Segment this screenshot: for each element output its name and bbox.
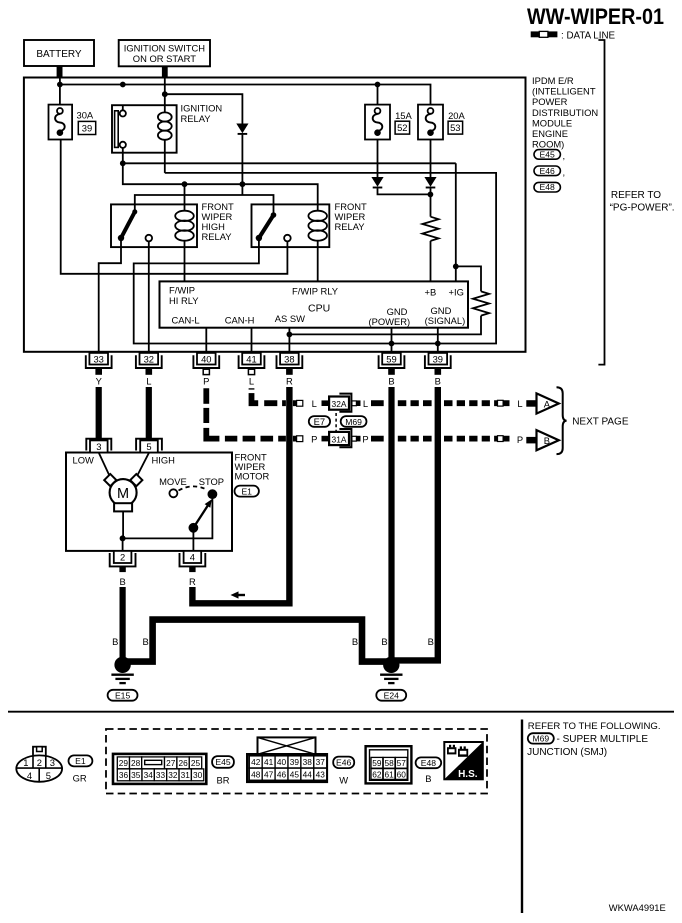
pin 38 IPDM — [277, 353, 303, 375]
svg-text:30: 30 — [193, 770, 203, 780]
svg-text:HIGH: HIGH — [152, 454, 175, 465]
connector E45 oval — [534, 149, 565, 161]
front wiper high relay box — [111, 204, 197, 247]
wire data line L pin 41 — [248, 388, 303, 407]
wire diode branch — [165, 94, 243, 123]
svg-text:STOP: STOP — [199, 476, 224, 487]
node ignition relay output — [120, 160, 126, 166]
wire ignition switch feed — [164, 78, 166, 113]
svg-text:H.S.: H.S. — [458, 769, 478, 780]
svg-text:E45: E45 — [215, 757, 231, 767]
connector E7 oval — [309, 416, 330, 427]
svg-text:52: 52 — [397, 122, 407, 133]
label FRONT WIPER MOTOR — [235, 452, 270, 482]
svg-text:M69: M69 — [532, 734, 549, 744]
svg-text:32A: 32A — [332, 399, 347, 409]
H.S. logo box — [444, 742, 483, 780]
svg-text:31A: 31A — [332, 434, 347, 444]
svg-text:5: 5 — [146, 441, 151, 452]
diode D2 ignition — [236, 124, 248, 134]
fuse number 39 — [78, 121, 95, 134]
ignition relay label — [181, 103, 223, 125]
svg-text:MODULE: MODULE — [532, 117, 572, 128]
relay1 coil — [175, 184, 194, 241]
svg-text:P: P — [362, 433, 368, 444]
svg-text:60: 60 — [397, 769, 407, 779]
wire 30A fuse to relay2 NO terminal — [61, 140, 288, 274]
resistor R2 — [473, 291, 489, 315]
svg-text:REFER TO: REFER TO — [611, 190, 661, 201]
svg-text:IPDM E/R: IPDM E/R — [532, 75, 574, 86]
wire R pin 38 to motor pin 4 — [192, 387, 289, 603]
svg-text:35: 35 — [131, 770, 141, 780]
svg-text:2: 2 — [37, 757, 42, 768]
svg-text:RELAY: RELAY — [335, 221, 366, 232]
connector E45 face — [113, 754, 206, 784]
front wiper relay label — [335, 201, 368, 232]
battery stub — [57, 66, 63, 78]
relay1 contact arm — [118, 209, 138, 241]
connector E45 oval footer — [212, 756, 234, 785]
next page brace — [557, 387, 567, 454]
node ignition switch diode tap — [162, 91, 168, 97]
svg-text:CAN-L: CAN-L — [172, 314, 200, 325]
IPDM E/R outer box — [24, 78, 526, 352]
wire Y pin 33 to motor — [96, 387, 102, 439]
data line legend — [531, 31, 616, 42]
svg-text:B: B — [119, 576, 125, 587]
pin 41 IPDM — [239, 353, 265, 375]
svg-text:40: 40 — [201, 353, 211, 364]
wire 15A fuse output — [377, 140, 379, 178]
wire R motor pin 4 drop — [189, 587, 195, 607]
connector E48 oval — [534, 182, 560, 192]
ignition relay contact — [115, 105, 126, 163]
svg-text:E15: E15 — [115, 691, 131, 701]
connector M69 oval footer — [528, 733, 554, 744]
wire ground link bus — [125, 620, 389, 662]
svg-text:44: 44 — [303, 770, 313, 780]
svg-text:36: 36 — [119, 770, 129, 780]
svg-text:33: 33 — [156, 770, 166, 780]
svg-text:WKWA4991E: WKWA4991E — [609, 902, 666, 913]
svg-text:B: B — [428, 636, 434, 647]
motor pin 4 — [180, 551, 206, 572]
svg-text:41: 41 — [246, 353, 256, 364]
refer to PG-POWER text — [610, 190, 675, 214]
svg-text:ON OR START: ON OR START — [133, 53, 196, 64]
node 15A fuse tap — [375, 82, 381, 88]
svg-text:B: B — [142, 636, 148, 647]
svg-text:58: 58 — [384, 758, 394, 768]
svg-text:1: 1 — [23, 757, 28, 768]
wire relay feed drop — [123, 163, 318, 210]
connector 31A — [322, 429, 361, 447]
node battery bus junction — [57, 82, 63, 88]
svg-text:M69: M69 — [345, 417, 362, 427]
svg-text:+B: +B — [425, 286, 437, 297]
svg-text:REFER TO THE FOLLOWING.: REFER TO THE FOLLOWING. — [528, 721, 661, 732]
svg-text:HI RLY: HI RLY — [169, 295, 199, 306]
svg-text:L: L — [517, 398, 522, 409]
svg-text:DISTRIBUTION: DISTRIBUTION — [532, 107, 598, 118]
battery box — [24, 40, 94, 66]
wire stop contact drop — [123, 498, 213, 538]
node AS SW junction — [287, 332, 293, 338]
svg-text:MOTOR: MOTOR — [235, 471, 270, 482]
node ignition relay contact tap — [120, 82, 126, 88]
motor pin 3 — [86, 439, 111, 453]
svg-text:- SUPER MULTIPLE: - SUPER MULTIPLE — [557, 734, 649, 745]
svg-text:43: 43 — [316, 770, 326, 780]
wire data line L to next page — [371, 400, 510, 407]
svg-text:45: 45 — [290, 770, 300, 780]
connector M69 oval — [341, 416, 367, 427]
wire GND SIGNAL to pin 39 — [437, 328, 439, 352]
connector E1 oval footer — [69, 755, 93, 783]
svg-text:30A: 30A — [77, 110, 94, 121]
pin 40 IPDM — [193, 353, 219, 375]
svg-text:B: B — [544, 435, 550, 446]
svg-text:L: L — [363, 398, 368, 409]
connector 32A — [322, 394, 361, 412]
svg-text:4: 4 — [190, 552, 195, 563]
wire +IG riser — [455, 163, 457, 281]
next page arrow A — [526, 393, 559, 413]
wire data line P to next page — [371, 435, 510, 442]
svg-text:32: 32 — [144, 353, 154, 364]
svg-text:4: 4 — [27, 770, 32, 781]
svg-text:B: B — [425, 773, 431, 784]
svg-text:MOVE: MOVE — [159, 476, 187, 487]
svg-text:NEXT PAGE: NEXT PAGE — [572, 417, 629, 428]
svg-text:E46: E46 — [336, 758, 352, 768]
ground symbol E15 — [111, 675, 133, 683]
svg-text:: DATA LINE: : DATA LINE — [561, 31, 616, 42]
svg-text:P: P — [203, 376, 209, 387]
ground E24 junction — [383, 657, 399, 673]
svg-text:F/WIP: F/WIP — [169, 284, 195, 295]
svg-text:CAN-H: CAN-H — [225, 314, 255, 325]
wire relay2 coil to CPU — [317, 241, 319, 282]
svg-text:Y: Y — [96, 376, 103, 387]
diode D1 — [371, 177, 383, 188]
node relay pivot feed tap — [240, 181, 246, 187]
wire relay1 NO to pin 32 — [148, 241, 150, 352]
wire AS SW to pin 38 — [288, 328, 290, 352]
connector E46 oval footer — [333, 757, 354, 786]
svg-text:40: 40 — [277, 757, 287, 767]
wire switched power line y=163.3 — [123, 162, 456, 164]
front wiper relay box — [252, 204, 330, 247]
connector E48 oval footer — [416, 757, 442, 784]
refer bracket line — [598, 40, 604, 365]
svg-text:L: L — [312, 398, 317, 409]
svg-text:E1: E1 — [241, 487, 252, 497]
wire relay1 arm to pin 33 — [99, 241, 121, 352]
svg-text:P: P — [517, 434, 523, 445]
wire motor to junction — [122, 511, 124, 538]
wire resistor R2 to AS SW line — [289, 316, 481, 335]
svg-text:33: 33 — [93, 353, 103, 364]
wire relay1 coil to CPU — [184, 241, 186, 282]
svg-text:15A: 15A — [395, 110, 412, 121]
svg-text:E7: E7 — [314, 416, 325, 427]
svg-text:59: 59 — [372, 758, 382, 768]
pin 39 IPDM — [425, 353, 451, 375]
svg-text:47: 47 — [264, 770, 274, 780]
wire diode D2 to relay feed line — [241, 135, 243, 195]
wire B motor pin 2 to ground E15 — [119, 587, 125, 662]
resistor R1 — [422, 217, 438, 241]
pin 33 IPDM — [86, 353, 112, 375]
fuse number 52 — [395, 121, 410, 134]
svg-text:28: 28 — [131, 758, 141, 768]
stop contact — [208, 489, 218, 499]
wire motor low lead — [99, 453, 111, 478]
svg-text:B: B — [388, 376, 394, 387]
svg-text:3: 3 — [96, 441, 101, 452]
ground symbol E24 — [380, 675, 402, 683]
wire CAN-H to pin 41 — [251, 328, 253, 352]
svg-text:W: W — [339, 775, 348, 786]
dashed connector group box — [106, 729, 487, 794]
diode D3 — [424, 177, 436, 188]
svg-text:ENGINE: ENGINE — [532, 128, 568, 139]
node relay1 coil tap — [182, 181, 188, 187]
wire L pin 32 to motor — [146, 387, 152, 439]
svg-text:,: , — [563, 150, 566, 161]
wire ignition coil ground line y=172.9 — [134, 173, 496, 344]
park switch arm — [189, 499, 212, 532]
wire B pin 59 to ground E24 — [388, 387, 394, 661]
battery bus wire y=84.5 — [60, 85, 431, 105]
svg-text:34: 34 — [144, 770, 154, 780]
svg-text:5: 5 — [46, 770, 51, 781]
svg-text:B: B — [435, 376, 441, 387]
wire GND POWER to pin 59 — [391, 328, 393, 352]
wire 20A fuse output — [430, 140, 432, 178]
svg-text:3: 3 — [50, 757, 55, 768]
svg-text:F/WIP RLY: F/WIP RLY — [292, 285, 339, 296]
node GND POWER junction — [389, 341, 395, 347]
svg-text:E46: E46 — [540, 166, 556, 176]
motor M1 — [104, 474, 142, 511]
connector E1 face — [16, 747, 62, 782]
node +B junction — [428, 192, 434, 198]
svg-text:20A: 20A — [448, 110, 465, 121]
pin 59 IPDM — [379, 353, 405, 375]
svg-text:IGNITION: IGNITION — [181, 103, 223, 114]
svg-text:57: 57 — [397, 758, 407, 768]
svg-text:B: B — [381, 636, 387, 647]
svg-text:26: 26 — [178, 758, 188, 768]
svg-text:WW-WIPER-01: WW-WIPER-01 — [527, 4, 664, 29]
svg-text:38: 38 — [284, 353, 294, 364]
footer divider line — [521, 720, 523, 914]
svg-text:CPU: CPU — [308, 303, 330, 315]
svg-text:E48: E48 — [421, 758, 437, 768]
svg-text:31: 31 — [181, 770, 191, 780]
svg-text:JUNCTION (SMJ): JUNCTION (SMJ) — [527, 747, 607, 758]
wire junction to pin 2 — [122, 538, 124, 551]
svg-text:RELAY: RELAY — [181, 113, 212, 124]
wire B pin 39 to ground E24 — [394, 387, 438, 660]
connector E46 oval — [534, 166, 565, 178]
svg-text:62: 62 — [372, 769, 382, 779]
ignition relay coil — [158, 112, 172, 172]
arrow direction marker — [231, 591, 246, 598]
motor pin 5 — [136, 439, 162, 453]
svg-text:27: 27 — [166, 758, 176, 768]
svg-text:2: 2 — [120, 552, 125, 563]
CPU box U1 — [160, 281, 469, 327]
move contact — [169, 489, 177, 497]
wire diode D1 to +B node — [378, 188, 431, 194]
svg-text:41: 41 — [264, 757, 274, 767]
node +IG pull-up tap — [453, 264, 459, 270]
svg-text:39: 39 — [290, 757, 300, 767]
connector E15 oval — [108, 690, 138, 701]
connector E24 oval — [376, 690, 406, 701]
wire CAN-L to pin 40 — [205, 328, 207, 352]
separator line — [8, 711, 674, 713]
svg-text:+IG: +IG — [449, 286, 464, 297]
svg-text:A: A — [544, 398, 551, 409]
wire 15A fuse riser — [377, 85, 379, 105]
svg-text:25: 25 — [191, 758, 201, 768]
svg-text:P: P — [311, 433, 317, 444]
svg-text:,: , — [563, 166, 566, 177]
ignition switch stub — [162, 66, 168, 77]
svg-text:GR: GR — [73, 773, 87, 784]
fuse F2 15A — [365, 105, 390, 140]
wire pull-up branch — [456, 266, 481, 291]
pin 32 IPDM — [136, 353, 162, 375]
ignition switch box — [119, 40, 210, 66]
svg-text:BATTERY: BATTERY — [36, 49, 82, 60]
connector E46 face — [247, 737, 326, 781]
svg-text:B: B — [352, 636, 358, 647]
svg-text:LOW: LOW — [73, 454, 95, 465]
svg-text:POWER: POWER — [532, 96, 568, 107]
wire relay pivot feed line y=195 — [135, 195, 274, 213]
connector E48 face — [366, 746, 412, 783]
svg-text:29: 29 — [119, 758, 129, 768]
front wiper high relay label — [202, 201, 235, 242]
svg-text:IGNITION SWITCH: IGNITION SWITCH — [124, 43, 205, 54]
relay2 NO terminal — [284, 235, 291, 242]
dashed arc move-stop — [179, 486, 208, 490]
svg-text:E1: E1 — [75, 756, 86, 766]
svg-text:38: 38 — [303, 757, 313, 767]
ignition relay box — [112, 105, 177, 153]
node motor ground junction — [120, 535, 126, 541]
svg-text:AS SW: AS SW — [275, 313, 305, 324]
svg-text:ROOM): ROOM) — [532, 139, 564, 150]
fuse number 53 — [448, 121, 463, 134]
relay2 contact arm — [256, 212, 277, 241]
wire diode D3 to resistor — [430, 188, 432, 216]
svg-text:E48: E48 — [540, 182, 556, 192]
svg-text:53: 53 — [450, 122, 460, 133]
svg-text:46: 46 — [277, 770, 287, 780]
next page arrow B — [526, 430, 559, 450]
motor pin 2 — [110, 551, 136, 572]
svg-text:59: 59 — [386, 353, 396, 364]
ground E15 junction — [114, 657, 130, 673]
svg-text:E45: E45 — [540, 149, 556, 159]
node GND SIGNAL junction — [435, 341, 441, 347]
svg-text:E24: E24 — [384, 691, 400, 701]
connector E1 oval motor — [235, 486, 259, 497]
svg-text:BR: BR — [216, 775, 229, 786]
svg-text:“PG-POWER”.: “PG-POWER”. — [610, 202, 675, 213]
relay2 coil — [308, 211, 327, 241]
svg-text:L: L — [146, 376, 151, 387]
svg-text:(INTELLIGENT: (INTELLIGENT — [532, 86, 596, 97]
svg-text:32: 32 — [168, 770, 178, 780]
svg-text:37: 37 — [316, 757, 326, 767]
connector boundary dashed line — [335, 413, 337, 433]
battery feed wire — [59, 78, 61, 105]
svg-text:42: 42 — [251, 757, 261, 767]
wire data line P pin 40 — [203, 388, 303, 442]
svg-text:48: 48 — [251, 770, 261, 780]
svg-text:M: M — [117, 486, 129, 502]
relay1 NO terminal — [146, 235, 153, 242]
svg-text:L: L — [249, 376, 254, 387]
svg-text:39: 39 — [82, 122, 92, 133]
svg-text:61: 61 — [384, 769, 394, 779]
CPU terminal labels — [169, 284, 465, 327]
svg-text:R: R — [286, 376, 293, 387]
wire +B to CPU — [430, 241, 432, 282]
svg-text:B: B — [112, 636, 118, 647]
IPDM label text — [532, 75, 598, 150]
wire motor high lead — [136, 453, 149, 478]
fuse F1 30A — [49, 105, 73, 140]
fuse F3 20A — [418, 105, 443, 140]
wire arm pivot to pin 4 — [192, 531, 194, 551]
svg-text:RELAY: RELAY — [202, 231, 233, 242]
svg-text:(POWER): (POWER) — [369, 316, 411, 327]
svg-text:39: 39 — [433, 353, 443, 364]
svg-text:R: R — [189, 576, 196, 587]
svg-text:(SIGNAL): (SIGNAL) — [425, 315, 466, 326]
front wiper motor box — [66, 453, 232, 551]
